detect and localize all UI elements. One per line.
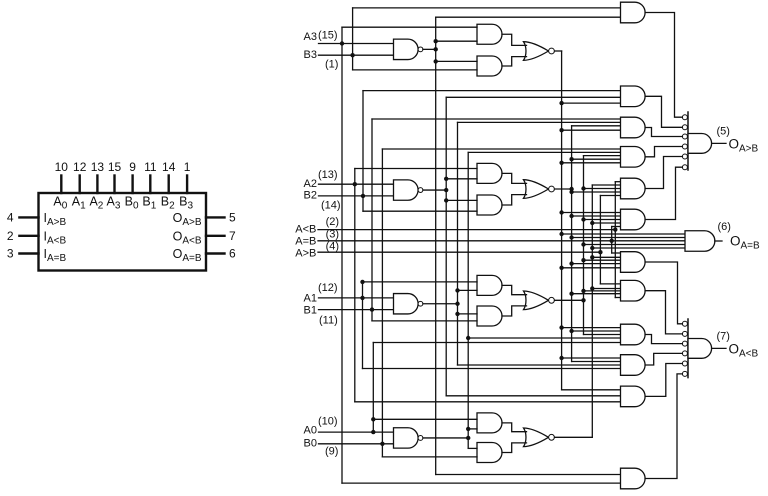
svg-text:3: 3 bbox=[7, 247, 14, 261]
svg-text:(9): (9) bbox=[325, 445, 338, 457]
svg-text:A<B: A<B bbox=[295, 223, 316, 235]
svg-text:(3): (3) bbox=[326, 229, 339, 241]
svg-text:13: 13 bbox=[91, 160, 105, 174]
svg-text:B0: B0 bbox=[304, 438, 317, 450]
svg-text:(2): (2) bbox=[326, 216, 339, 228]
svg-text:(4): (4) bbox=[326, 240, 339, 252]
svg-text:6: 6 bbox=[229, 247, 236, 261]
svg-text:OA<B: OA<B bbox=[729, 341, 759, 359]
svg-text:A1: A1 bbox=[304, 293, 317, 305]
svg-text:B3: B3 bbox=[304, 49, 317, 61]
svg-text:(1): (1) bbox=[325, 58, 338, 70]
svg-text:11: 11 bbox=[144, 160, 157, 174]
svg-text:A3: A3 bbox=[304, 31, 317, 43]
svg-text:(14): (14) bbox=[321, 199, 341, 211]
svg-text:14: 14 bbox=[162, 160, 176, 174]
svg-text:(13): (13) bbox=[318, 169, 338, 181]
svg-text:(15): (15) bbox=[318, 30, 338, 42]
svg-text:B1: B1 bbox=[304, 305, 317, 317]
svg-text:A0: A0 bbox=[304, 425, 317, 437]
svg-text:12: 12 bbox=[73, 160, 87, 174]
svg-text:(11): (11) bbox=[319, 315, 338, 327]
svg-text:(10): (10) bbox=[318, 415, 338, 427]
svg-text:(12): (12) bbox=[318, 282, 338, 294]
svg-text:OA=B: OA=B bbox=[730, 234, 760, 252]
svg-text:B2: B2 bbox=[304, 190, 317, 202]
svg-text:4: 4 bbox=[7, 211, 14, 225]
svg-text:(6): (6) bbox=[718, 221, 731, 233]
svg-text:15: 15 bbox=[108, 160, 122, 174]
svg-text:A>B: A>B bbox=[295, 247, 316, 259]
svg-text:A2: A2 bbox=[304, 178, 317, 190]
svg-text:1: 1 bbox=[184, 160, 191, 174]
svg-text:2: 2 bbox=[7, 229, 14, 243]
svg-text:10: 10 bbox=[55, 160, 69, 174]
svg-text:OA>B: OA>B bbox=[729, 136, 759, 154]
svg-text:7: 7 bbox=[229, 229, 236, 243]
svg-text:9: 9 bbox=[129, 160, 136, 174]
svg-text:A=B: A=B bbox=[295, 235, 316, 247]
svg-text:5: 5 bbox=[229, 211, 236, 225]
